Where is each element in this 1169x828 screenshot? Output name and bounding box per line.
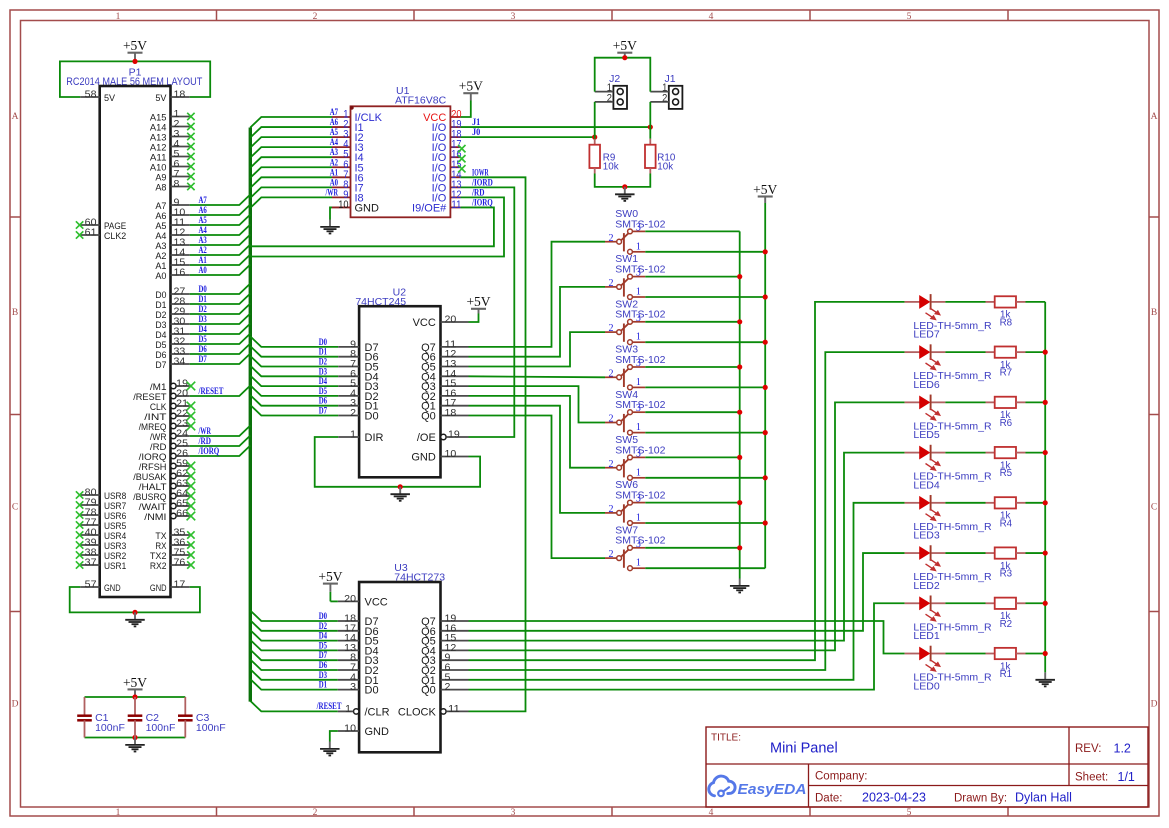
svg-text:/WR: /WR — [198, 426, 212, 436]
svg-text:1: 1 — [345, 704, 351, 715]
capacitor C1 100nF — [77, 697, 125, 738]
wire D6 to U3 — [250, 660, 337, 671]
svg-text:10k: 10k — [657, 162, 673, 173]
svg-text:R4: R4 — [1000, 518, 1013, 529]
P1 pin 27 D0 — [155, 287, 189, 301]
svg-text:TITLE:: TITLE: — [711, 733, 741, 744]
wire J0 (U1.18 to J2/R9) — [461, 136, 595, 138]
junction LED gnd rail — [1043, 550, 1048, 555]
connector J2 — [595, 73, 627, 109]
U1 pin 8 I7 — [332, 179, 364, 195]
wire SW4 pin2 to U2 Q3 — [469, 386, 606, 422]
wire /RESET from P1 — [190, 386, 251, 397]
svg-text:4: 4 — [709, 12, 714, 22]
svg-text:A7: A7 — [199, 195, 208, 205]
wire LED4 to R5 — [945, 452, 985, 454]
svg-text:D: D — [12, 699, 19, 709]
U2 pin 20 VCC — [413, 315, 469, 330]
svg-text:2: 2 — [609, 368, 614, 379]
wire D5 to U3 — [250, 640, 337, 651]
U1 pin 11 I9/OE# — [412, 199, 461, 215]
svg-text:REV:: REV: — [1075, 743, 1101, 755]
svg-text:Q0: Q0 — [421, 685, 436, 697]
LED LED0 LED-TH-5mm_R — [905, 646, 992, 693]
wire D3 from P1 — [190, 314, 251, 325]
switch SW4 SMTS-102 — [605, 389, 666, 435]
svg-text:LED0: LED0 — [913, 680, 939, 692]
resistor R7 1k — [986, 346, 1026, 378]
connector J1 — [650, 73, 682, 109]
svg-text:EasyEDA: EasyEDA — [738, 781, 807, 798]
wire A4 from P1 — [190, 225, 251, 236]
svg-text:/IORQ: /IORQ — [198, 446, 220, 456]
svg-text:D7: D7 — [319, 650, 328, 660]
wire SW3 pin3 to switch-gnd rail — [645, 366, 739, 368]
wire U3 Q7 to LED0 — [469, 621, 905, 654]
U2 pin 12 Q6 — [421, 349, 468, 364]
U3 pin 8 D3 — [338, 653, 379, 668]
P1 pin 2 A14 — [150, 119, 195, 133]
svg-text:3: 3 — [511, 12, 516, 22]
svg-text:+5V: +5V — [613, 38, 637, 53]
wire SW0 pin1 to +5V rail — [645, 251, 765, 253]
svg-text:RX2: RX2 — [150, 561, 167, 572]
LED LED7 LED-TH-5mm_R — [905, 294, 992, 341]
svg-text:A5: A5 — [199, 215, 208, 225]
svg-text:A5: A5 — [330, 127, 339, 137]
svg-text:R6: R6 — [1000, 418, 1013, 429]
U3 pin 13 D4 — [338, 643, 379, 658]
U3 pin 10 GND — [338, 724, 389, 739]
wire D0 to U2 — [250, 336, 338, 347]
svg-text:1: 1 — [636, 241, 641, 252]
P1 pin 34 D7 — [155, 357, 189, 371]
wire /RESET to U3 /CLR — [250, 701, 337, 712]
U1 pin 16 I/O — [432, 149, 462, 165]
wire switch pin1 +5V rail — [764, 203, 766, 568]
svg-text:2: 2 — [609, 414, 614, 425]
junction J0 net — [592, 135, 597, 140]
wire SW5 pin2 to U2 Q2 — [469, 396, 606, 468]
wire A4 to U1 pin 4 — [250, 147, 332, 158]
U2 pin 9 D7 — [338, 339, 378, 354]
svg-text:A0: A0 — [155, 271, 166, 282]
svg-text:B: B — [12, 308, 18, 318]
svg-text:1: 1 — [636, 377, 641, 388]
svg-text:LED7: LED7 — [913, 329, 939, 341]
wire A2 to U1 pin 6 — [250, 167, 332, 178]
U1 pin 5 I4 — [332, 149, 364, 165]
U1 pin 19 I/O — [432, 119, 462, 135]
U3 pin 5 Q1 — [421, 672, 468, 687]
wire SW0 pin2 to U2 Q7 — [469, 242, 606, 347]
U2 pin 19 /OE — [417, 430, 469, 445]
svg-text:Mini Panel: Mini Panel — [770, 741, 838, 757]
svg-text:100nF: 100nF — [95, 722, 125, 734]
svg-text:19: 19 — [448, 430, 460, 441]
wire A6 to U1 pin 2 — [250, 127, 332, 138]
svg-text:LED2: LED2 — [913, 580, 939, 592]
wire J2 pin2 to R9 — [594, 102, 596, 139]
wire SW6 pin1 to +5V rail — [645, 522, 765, 524]
P1 pin 61 CLK2 — [76, 228, 126, 242]
junction cap +5V — [132, 694, 137, 699]
U1 pin 20 VCC — [423, 109, 461, 125]
wire A2 from P1 — [190, 245, 251, 256]
P1 pin 16 A0 — [155, 268, 189, 282]
wire P1 5V loop — [60, 61, 210, 97]
U2 pin 13 Q5 — [421, 359, 468, 374]
wire U2 VCC — [469, 314, 479, 323]
junction switch gnd rail — [737, 500, 742, 505]
svg-text:D3: D3 — [319, 366, 328, 376]
P1 pin 77 USR5 — [76, 518, 126, 532]
P1 pin 22 /INT — [144, 409, 195, 423]
wire U1 GND — [330, 207, 332, 219]
svg-text:+5V: +5V — [318, 569, 342, 584]
svg-text:1: 1 — [116, 12, 121, 22]
wire U3 Q3 to LED7 — [469, 302, 905, 660]
svg-text:VCC: VCC — [413, 317, 436, 329]
junction switch +5V rail — [763, 520, 768, 525]
P1 pin 35 TX — [155, 528, 194, 542]
svg-text:A0: A0 — [199, 265, 208, 275]
junction R ground — [622, 184, 627, 189]
wire capacitor +5V rail — [85, 696, 186, 698]
wire SW1 pin3 to switch-gnd rail — [645, 276, 739, 278]
svg-text:D2: D2 — [319, 621, 328, 631]
svg-text:Q0: Q0 — [421, 411, 436, 423]
svg-text:R7: R7 — [1000, 368, 1013, 379]
P1 pin 19 /M1 — [150, 379, 195, 393]
P1 pin 80 USR8 — [76, 488, 126, 502]
svg-text:D2: D2 — [319, 357, 328, 367]
wire LED3 to R4 — [945, 502, 985, 504]
junction LED gnd rail — [1043, 500, 1048, 505]
svg-text:J1: J1 — [472, 117, 481, 127]
svg-text:IOWR: IOWR — [472, 167, 489, 177]
svg-text:D3: D3 — [199, 314, 208, 324]
junction switch gnd rail — [737, 364, 742, 369]
svg-text:/NMI: /NMI — [144, 512, 166, 523]
wire SW5 pin3 to switch-gnd rail — [645, 456, 739, 458]
P1 pin 1 A15 — [150, 109, 195, 123]
wire R2 to LED gnd rail — [1026, 602, 1046, 604]
svg-text:J0: J0 — [472, 127, 481, 137]
wire R4 to LED gnd rail — [1026, 502, 1046, 504]
wire D0 from P1 — [190, 284, 251, 295]
wire A7 from P1 — [190, 195, 251, 206]
svg-text:2: 2 — [609, 504, 614, 515]
ground below U3 — [329, 742, 331, 749]
wire A3 from P1 — [190, 235, 251, 246]
P1 pin 59 /RFSH — [139, 459, 196, 473]
svg-text:3: 3 — [511, 808, 516, 818]
wire /RD from P1 — [190, 436, 251, 447]
ground below P1 — [134, 612, 136, 619]
wire R1 to LED gnd rail — [1026, 653, 1046, 655]
svg-text:5V: 5V — [104, 93, 116, 104]
junction switch gnd rail — [737, 410, 742, 415]
svg-text:10k: 10k — [603, 162, 619, 173]
wire D2 to U2 — [250, 356, 338, 367]
svg-text:1: 1 — [116, 808, 121, 818]
P1 pin 62 /BUSAK — [133, 469, 195, 483]
junction cap gnd — [132, 735, 137, 740]
P1 pin 75 TX2 — [150, 548, 195, 562]
svg-text:D2: D2 — [199, 304, 208, 314]
U1 pin 13 I/O — [432, 179, 462, 195]
svg-text:+5V: +5V — [459, 79, 483, 94]
U2 pin 6 D4 — [338, 369, 378, 384]
P1 pin 63 /HALT — [139, 479, 196, 493]
wire D1 to U2 — [250, 346, 338, 357]
svg-text:DIR: DIR — [365, 432, 384, 444]
wire D7 from P1 — [190, 354, 251, 365]
svg-text:D4: D4 — [199, 324, 208, 334]
wire A5 to U1 pin 3 — [250, 137, 332, 148]
P1 pin 64 /BUSRQ — [133, 489, 195, 503]
svg-text:USR1: USR1 — [104, 561, 126, 572]
svg-text:D0: D0 — [319, 337, 328, 347]
svg-text:A: A — [1151, 112, 1158, 122]
svg-text:5: 5 — [907, 808, 912, 818]
junction LED gnd rail — [1043, 350, 1048, 355]
svg-text:20: 20 — [344, 594, 356, 605]
svg-text:16: 16 — [174, 268, 186, 279]
U1 pin 6 I5 — [332, 159, 364, 175]
svg-text:D5: D5 — [319, 640, 328, 650]
ground below R9/R10 — [624, 187, 626, 194]
P1 pin 58 (5V) — [80, 90, 115, 104]
svg-text:3: 3 — [636, 448, 641, 459]
svg-text:Date:: Date: — [815, 793, 843, 805]
wire U3 Q0 to LED1 — [469, 603, 905, 689]
svg-text:18: 18 — [174, 90, 186, 101]
wire /WR to U1 pin 9 — [250, 197, 332, 208]
svg-text:1: 1 — [636, 422, 641, 433]
svg-text:3: 3 — [350, 682, 356, 693]
U3 pin 16 Q6 — [421, 623, 468, 638]
svg-text:10: 10 — [344, 724, 356, 735]
svg-text:R2: R2 — [1000, 619, 1013, 630]
P1 pin 79 USR7 — [76, 498, 126, 512]
svg-text:100nF: 100nF — [196, 722, 226, 734]
P1 pin 20 /RESET — [133, 389, 190, 403]
P1 pin 60 PAGE — [76, 218, 126, 232]
wire SW7 pin1 to +5V rail — [645, 567, 765, 569]
connector P1 RC2014 MALE 56 MEM LAYOUT — [66, 67, 202, 598]
P1 pin 76 RX2 — [150, 558, 195, 572]
svg-text:D4: D4 — [319, 631, 328, 641]
svg-text:10: 10 — [338, 199, 348, 211]
svg-text:C: C — [1151, 502, 1157, 512]
U2 pin 15 Q3 — [421, 379, 468, 394]
svg-text:CLK2: CLK2 — [104, 231, 126, 242]
P1 pin 25 /RD — [150, 439, 190, 453]
wire U3 GND — [330, 731, 338, 742]
U3 pin 2 Q0 — [421, 682, 468, 697]
junction switch +5V rail — [763, 294, 768, 299]
LED LED4 LED-TH-5mm_R — [905, 445, 992, 492]
junction P1 +5V — [132, 59, 137, 64]
svg-text:A6: A6 — [199, 205, 208, 215]
wire D5 from P1 — [190, 334, 251, 345]
wire P1 GND loop — [70, 587, 200, 612]
wire D2 to U3 — [250, 620, 337, 631]
svg-text:B: B — [1151, 308, 1157, 318]
junction LED gnd rail — [1043, 450, 1048, 455]
wire U3 Q2 to LED6 — [469, 352, 905, 670]
P1 pin 21 CLK — [150, 399, 195, 413]
svg-text:3: 3 — [636, 494, 641, 505]
P1 pin 28 D1 — [155, 297, 189, 311]
svg-text:GND: GND — [355, 202, 380, 214]
U1 pin 2 I1 — [332, 119, 364, 135]
ground below capacitors — [134, 738, 136, 745]
U1 pin 10 GND — [332, 199, 379, 215]
U3 pin 15 Q5 — [421, 633, 468, 648]
U2 pin 5 D3 — [338, 379, 378, 394]
U2 pin 10 GND — [411, 449, 468, 464]
svg-text:D1: D1 — [319, 680, 328, 690]
svg-text:/IORD: /IORD — [471, 177, 493, 187]
svg-text:20: 20 — [445, 315, 457, 326]
wire /RD (U1.12 to bus) — [250, 197, 504, 256]
wire LED1 to R2 — [945, 602, 985, 604]
svg-text:/RESET: /RESET — [198, 386, 224, 396]
svg-text:3: 3 — [636, 268, 641, 279]
svg-text:2: 2 — [313, 808, 318, 818]
svg-text:I9/OE#: I9/OE# — [412, 202, 447, 214]
svg-text:61: 61 — [85, 228, 97, 239]
svg-text:D4: D4 — [319, 376, 328, 386]
svg-text:LED5: LED5 — [913, 429, 939, 441]
svg-text:/RD: /RD — [198, 436, 212, 446]
svg-text:1: 1 — [636, 558, 641, 569]
svg-text:Drawn By:: Drawn By: — [954, 793, 1007, 805]
svg-text:D0: D0 — [199, 284, 208, 294]
op U2 74HCT245 — [355, 286, 440, 477]
P1 pin 40 USR4 — [76, 528, 127, 542]
svg-text:+5V: +5V — [753, 182, 777, 197]
op U3 74HCT273 — [359, 562, 445, 752]
wire R9/R10 bottoms to ground — [595, 174, 651, 187]
U2 pin 3 D1 — [338, 398, 378, 413]
wire SW1 pin1 to +5V rail — [645, 296, 765, 298]
wire U3 Q1 to LED3 — [469, 503, 905, 680]
wire U1 VCC — [461, 101, 471, 118]
wire A1 from P1 — [190, 255, 251, 266]
wire A1 to U1 pin 7 — [250, 177, 332, 188]
svg-text:D6: D6 — [319, 396, 328, 406]
svg-text:2: 2 — [313, 12, 318, 22]
svg-text:D7: D7 — [319, 406, 328, 416]
wire D1 from P1 — [190, 294, 251, 305]
svg-text:R1: R1 — [1000, 669, 1013, 680]
no-connect X on U1 — [458, 145, 465, 152]
P1 pin 36 RX — [155, 538, 194, 552]
resistor R1 1k — [986, 648, 1026, 680]
resistor R5 1k — [986, 447, 1026, 479]
wire SW7 pin2 to U2 Q0 — [469, 416, 606, 559]
no-connect X on U1 — [458, 165, 465, 172]
junction switch gnd rail — [737, 319, 742, 324]
svg-text:D1: D1 — [319, 347, 328, 357]
P1 pin 78 USR6 — [76, 508, 126, 522]
svg-text:VCC: VCC — [365, 596, 388, 608]
svg-text:C: C — [12, 502, 18, 512]
resistor R9 10k — [589, 139, 618, 174]
switch SW1 SMTS-102 — [605, 253, 666, 299]
wire R3 to LED gnd rail — [1026, 552, 1046, 554]
U3 pin 18 D7 — [338, 614, 379, 629]
svg-text:GND: GND — [365, 726, 390, 738]
P1 pin 8 A8 — [155, 179, 194, 193]
U2 pin 18 Q0 — [421, 408, 468, 423]
junction switch +5V rail — [763, 430, 768, 435]
P1 pin 7 A9 — [155, 169, 194, 183]
P1 pin 31 D4 — [155, 327, 189, 341]
svg-text:5V: 5V — [155, 93, 167, 104]
U3 pin 6 Q2 — [421, 663, 468, 678]
svg-text:1: 1 — [636, 513, 641, 524]
LED LED5 LED-TH-5mm_R — [905, 395, 992, 442]
junction switch +5V rail — [763, 385, 768, 390]
svg-text:3: 3 — [636, 358, 641, 369]
svg-text:A7: A7 — [330, 107, 339, 117]
P1 pin 26 /IORQ — [139, 449, 190, 463]
svg-text:4: 4 — [709, 808, 714, 818]
svg-text:1: 1 — [636, 467, 641, 478]
wire D4 to U3 — [250, 630, 337, 641]
resistor R6 1k — [986, 397, 1026, 429]
svg-text:A4: A4 — [199, 225, 208, 235]
wire LED5 to R6 — [945, 401, 985, 403]
junction U2 ground — [398, 484, 403, 489]
wire LED2 to R3 — [945, 552, 985, 554]
svg-text:GND: GND — [411, 452, 436, 464]
switch SW3 SMTS-102 — [605, 344, 666, 390]
U2 pin 17 Q1 — [421, 398, 468, 413]
svg-text:A: A — [12, 112, 19, 122]
junction switch gnd rail — [737, 274, 742, 279]
wire capacitor gnd rail — [85, 737, 186, 739]
U1 pin 12 I/O — [432, 189, 462, 205]
P1 pin 5 A11 — [150, 149, 195, 163]
svg-text:10: 10 — [445, 449, 457, 460]
svg-text:/RD: /RD — [471, 187, 485, 197]
svg-text:/WR: /WR — [325, 187, 339, 197]
wire U2 DIR/GND to ground — [315, 437, 480, 487]
junction LED gnd rail — [1043, 400, 1048, 405]
svg-text:18: 18 — [445, 408, 457, 419]
switch SW5 SMTS-102 — [605, 434, 666, 480]
svg-text:Company:: Company: — [815, 771, 867, 783]
svg-text:A0: A0 — [330, 177, 339, 187]
P1 pin 14 A2 — [155, 248, 189, 262]
svg-text:+5V: +5V — [466, 294, 490, 309]
wire SW4 pin1 to +5V rail — [645, 432, 765, 434]
P1 pin 3 A13 — [150, 129, 195, 143]
U1 pin 18 I/O — [432, 129, 462, 145]
junction +5V J header — [622, 55, 627, 60]
svg-text:A2: A2 — [199, 245, 208, 255]
U3 pin 12 Q4 — [421, 643, 468, 658]
wire U3 Q4 to LED5 — [469, 402, 905, 650]
svg-text:2: 2 — [609, 233, 614, 244]
svg-text:LED1: LED1 — [913, 630, 939, 642]
